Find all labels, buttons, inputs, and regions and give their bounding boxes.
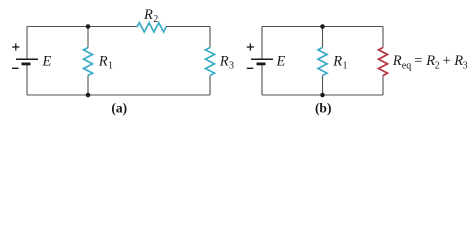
svg-text:(a): (a) <box>111 100 127 115</box>
svg-text:R: R <box>143 7 153 23</box>
wire right side lower (b) <box>382 76 384 96</box>
polarity plus (a) <box>12 43 19 50</box>
wire left side upper (a): top corner to battery <box>26 27 28 60</box>
wire top segment R2 to top-right corner (a) <box>166 26 210 28</box>
svg-text:(b): (b) <box>315 100 332 115</box>
node junction top (b) <box>320 24 325 29</box>
svg-text:+: + <box>443 53 451 69</box>
battery E (a) <box>16 59 38 64</box>
svg-text:1: 1 <box>108 61 113 72</box>
resistor Req (b) <box>379 48 388 76</box>
wire top segment node A to R2 (a) <box>88 26 137 28</box>
svg-text:E: E <box>42 54 52 70</box>
label Req = R2 + R3 (b) <box>392 53 468 71</box>
polarity minus (b) <box>247 67 254 69</box>
svg-text:R: R <box>219 54 229 70</box>
label R1 (a) <box>98 54 113 72</box>
node junction bottom (b) <box>320 93 325 98</box>
wire right side lower (a) <box>209 76 211 96</box>
wire right side upper (b) <box>382 27 384 48</box>
wire middle branch lower (a) <box>87 76 89 96</box>
label R2 (a) <box>143 7 158 25</box>
svg-text:E: E <box>276 54 286 70</box>
wire left side upper (b): top corner to battery <box>261 27 263 60</box>
wire top-left segment (a): corner to node A <box>27 26 88 28</box>
svg-text:2: 2 <box>435 60 440 71</box>
svg-text:eq: eq <box>402 60 411 71</box>
svg-text:R: R <box>392 53 402 69</box>
svg-text:=: = <box>414 53 422 69</box>
wire left side lower (b): battery to bottom corner <box>261 64 263 95</box>
svg-text:R: R <box>98 54 108 70</box>
polarity plus (b) <box>247 43 254 50</box>
wire right side upper (a) <box>209 27 211 48</box>
label R3 (a) <box>219 54 234 72</box>
wire bottom (a) <box>27 94 210 96</box>
resistor R1 (a) <box>84 48 93 76</box>
svg-text:1: 1 <box>343 61 348 72</box>
polarity minus (a) <box>12 67 19 69</box>
resistor R1 (b) <box>318 48 327 76</box>
wire bottom (b) <box>262 94 383 96</box>
svg-text:R: R <box>332 54 342 70</box>
resistor R3 (a) <box>206 48 215 76</box>
node junction bottom (a) <box>86 93 91 98</box>
resistor R2 (a) <box>137 23 166 32</box>
wire middle branch upper (b) <box>322 27 324 48</box>
wire top segment node B to top-right corner (b) <box>323 26 384 28</box>
label R1 (b) <box>332 54 347 72</box>
svg-text:3: 3 <box>463 60 468 71</box>
battery E (b) <box>251 59 273 64</box>
wire left side lower (a): battery to bottom corner <box>26 64 28 95</box>
wire middle branch upper (a) <box>87 27 89 48</box>
wire top-left segment (b): corner to node B <box>262 26 323 28</box>
svg-text:3: 3 <box>229 61 234 72</box>
node junction top (a) <box>86 24 91 29</box>
wire middle branch lower (b) <box>322 76 324 96</box>
svg-text:2: 2 <box>153 14 158 25</box>
